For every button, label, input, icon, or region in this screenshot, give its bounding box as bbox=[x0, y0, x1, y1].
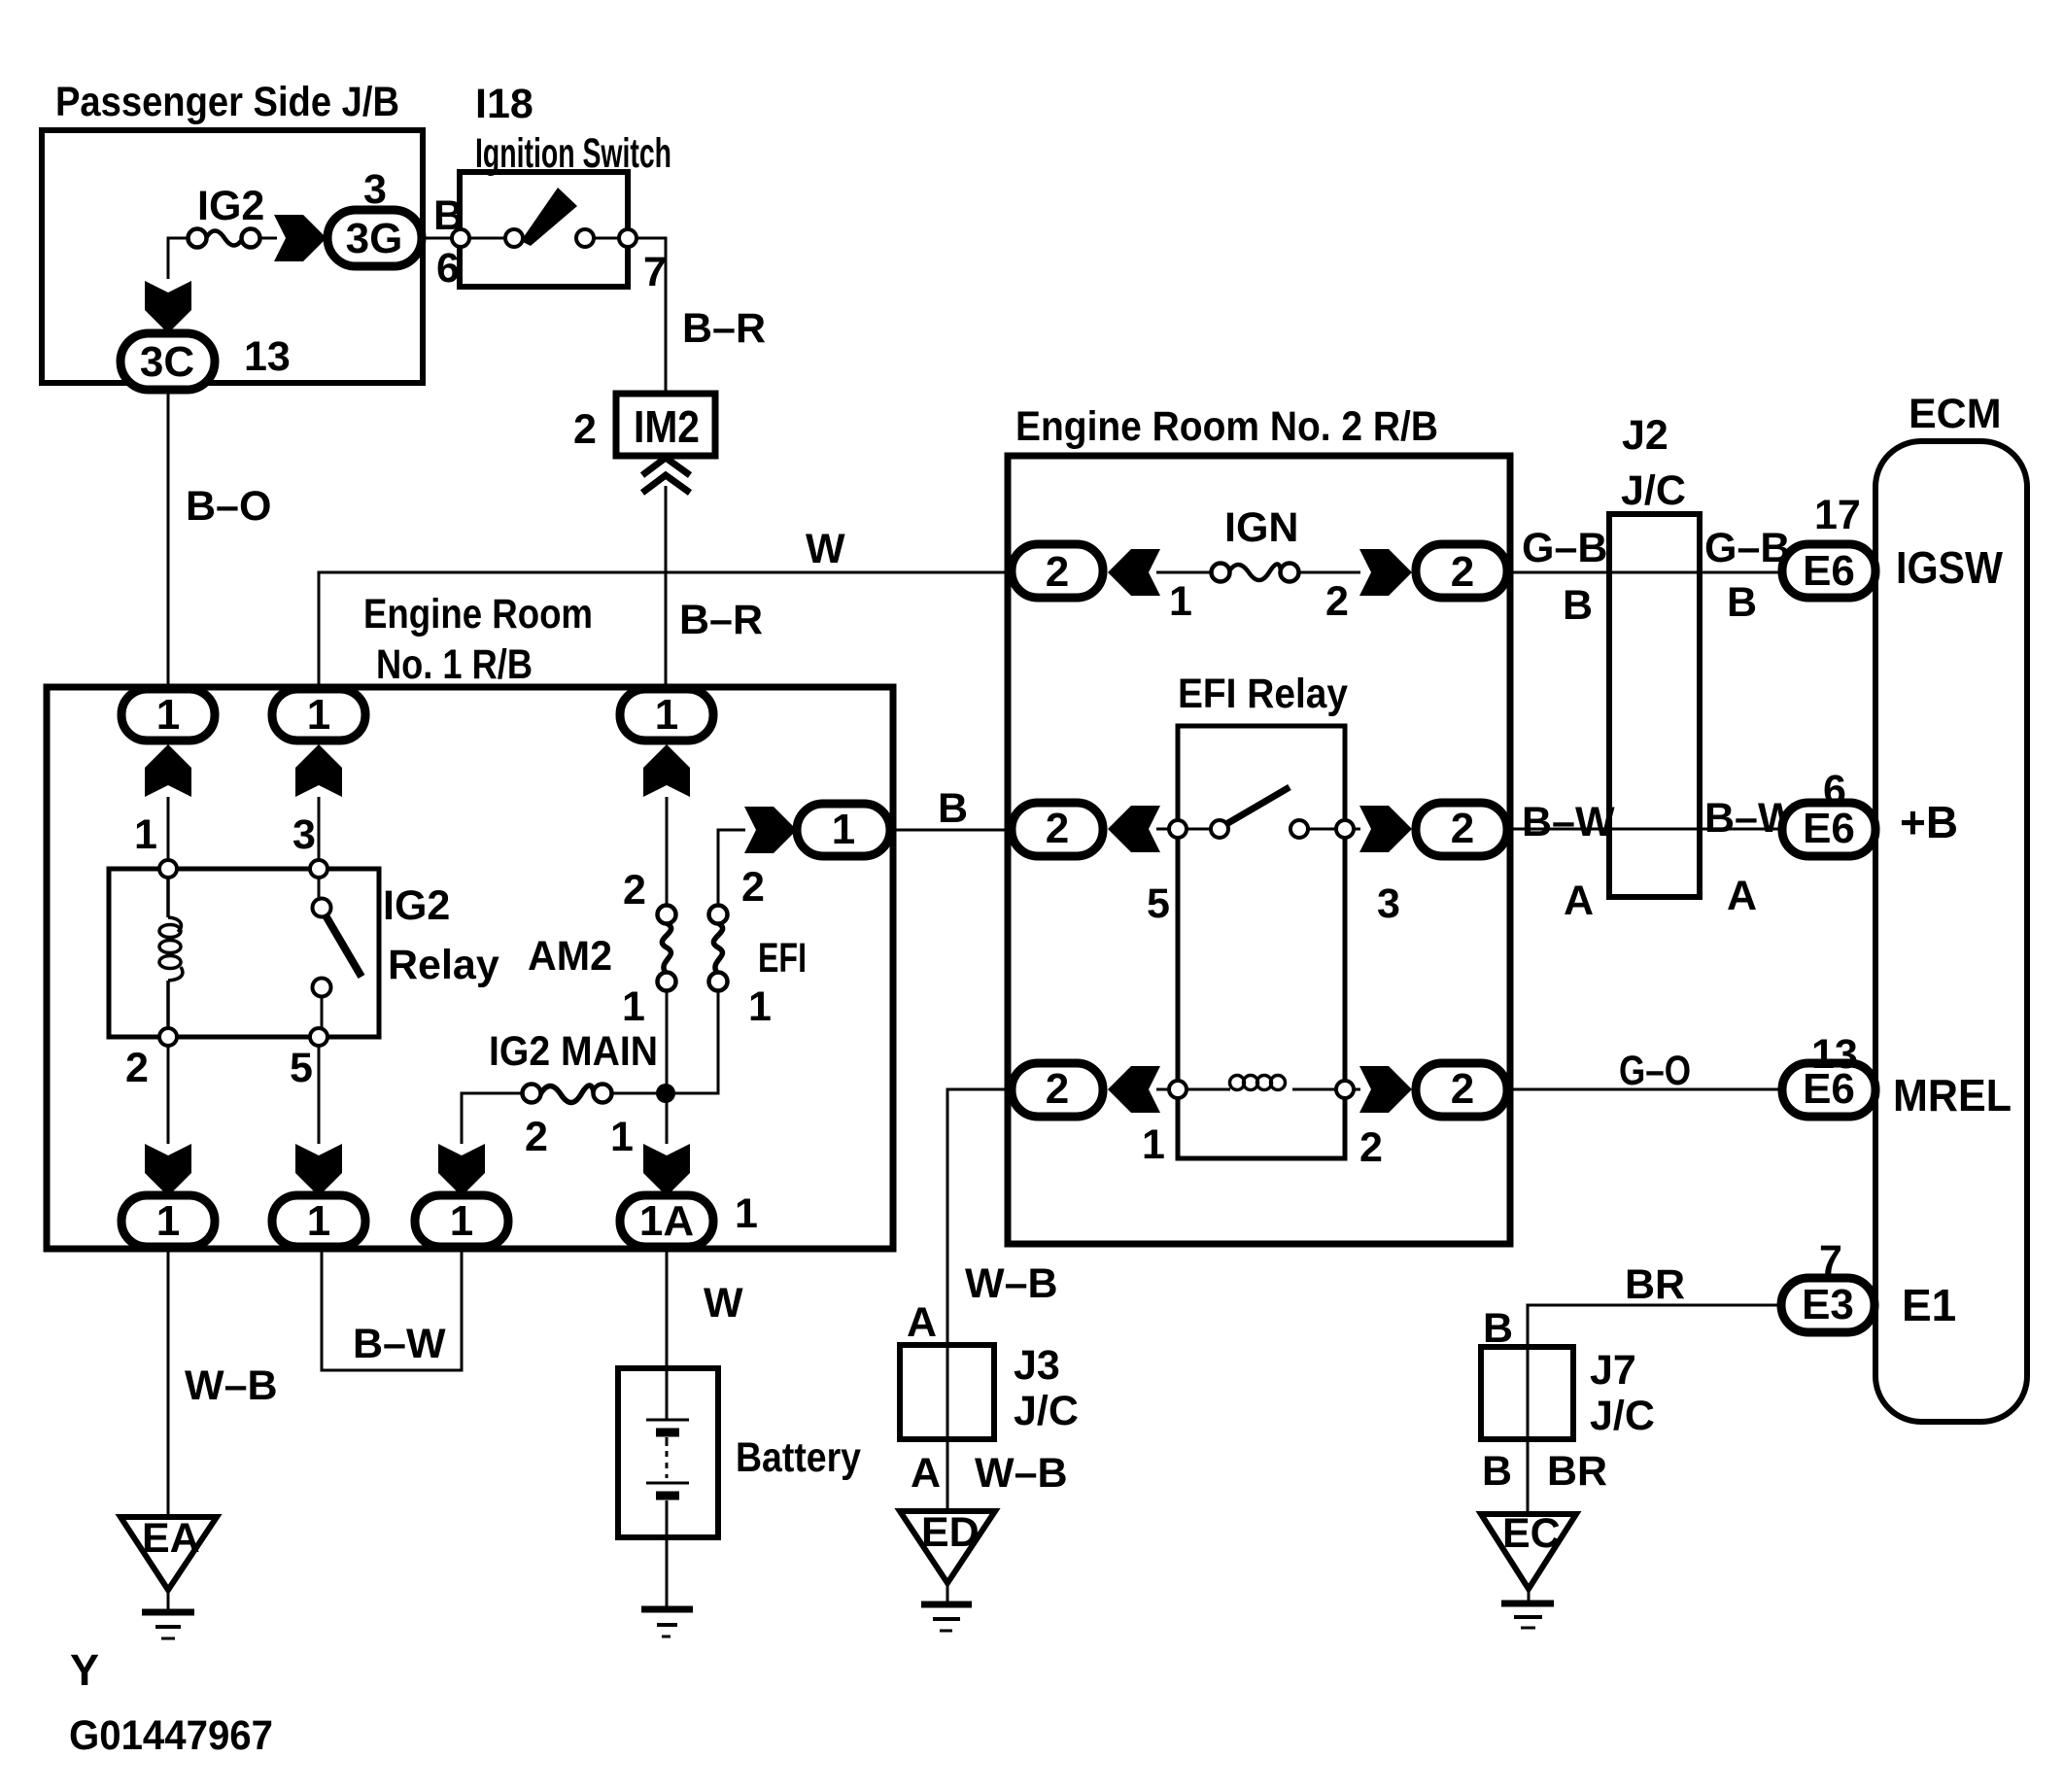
ground EC bbox=[1481, 1510, 1576, 1628]
svg-text:G01447967: G01447967 bbox=[69, 1712, 273, 1759]
svg-text:E1: E1 bbox=[1902, 1280, 1956, 1330]
connector E3 pin 7 E1 bbox=[1781, 1237, 1956, 1332]
connector E6 pin 17 IGSW bbox=[1782, 492, 2004, 598]
IG2 relay coil bbox=[159, 878, 183, 1028]
svg-text:1: 1 bbox=[450, 1197, 473, 1245]
svg-text:G–B: G–B bbox=[1522, 525, 1607, 571]
connector arrow up col 1 bbox=[145, 744, 191, 797]
connector 3G pin 3 bbox=[327, 166, 422, 266]
svg-text:1: 1 bbox=[748, 983, 772, 1030]
junction node bbox=[656, 1084, 675, 1103]
connector arrow down col 1A bbox=[643, 1144, 690, 1196]
EFI relay coil pins 1 2 bbox=[1142, 1076, 1383, 1172]
svg-text:B–R: B–R bbox=[682, 305, 766, 352]
svg-text:B: B bbox=[938, 785, 968, 832]
svg-text:IM2: IM2 bbox=[634, 401, 700, 452]
svg-text:3G: 3G bbox=[346, 215, 403, 262]
svg-text:1: 1 bbox=[156, 1197, 180, 1245]
svg-text:2: 2 bbox=[1046, 805, 1069, 852]
wire switch pin7 to IM2, label B-R bbox=[636, 238, 766, 394]
ground EA bbox=[120, 1515, 217, 1638]
svg-text:BR: BR bbox=[1625, 1261, 1685, 1308]
svg-text:J3: J3 bbox=[1014, 1342, 1060, 1389]
IG2 relay pin circles bbox=[159, 860, 177, 878]
wire IG2 MAIN to corner col3 bbox=[462, 1093, 523, 1144]
svg-text:6: 6 bbox=[1823, 767, 1846, 813]
connector oval 2 (+B row, left) bbox=[1012, 803, 1103, 856]
wire arrow to IGN fuse bbox=[1156, 571, 1212, 574]
connector oval 1 (bottom, col 1) bbox=[121, 1195, 215, 1247]
connector arrow up col AM2 bbox=[643, 744, 690, 797]
svg-text:J/C: J/C bbox=[1590, 1393, 1655, 1439]
connector oval 2 (IGN row, right) bbox=[1416, 544, 1507, 598]
connector oval 2 (+B row, right) bbox=[1416, 803, 1507, 856]
svg-text:1: 1 bbox=[1169, 578, 1192, 625]
svg-text:1: 1 bbox=[1142, 1121, 1165, 1168]
svg-text:1: 1 bbox=[156, 691, 180, 739]
wire B from oval 1 to Engine Room No.2 R/B bbox=[890, 785, 1012, 832]
svg-text:J2: J2 bbox=[1622, 412, 1668, 459]
svg-text:EFI Relay: EFI Relay bbox=[1178, 671, 1348, 717]
connector arrow into 3C bbox=[145, 281, 191, 333]
svg-text:6: 6 bbox=[436, 245, 460, 292]
fuse IG2 bbox=[189, 183, 265, 248]
svg-text:2: 2 bbox=[1451, 1065, 1474, 1113]
connector oval 2 (MREL row, right) bbox=[1416, 1063, 1507, 1117]
svg-text:1: 1 bbox=[832, 806, 855, 853]
junction connector J3 J/C bbox=[900, 1342, 1079, 1439]
svg-text:ED: ED bbox=[921, 1509, 980, 1556]
Engine Room No. 1 R/B box bbox=[47, 591, 893, 1249]
svg-text:B–W: B–W bbox=[1522, 799, 1615, 845]
svg-text:EA: EA bbox=[142, 1515, 200, 1562]
connector oval 1 (top, col 2) bbox=[272, 689, 365, 741]
connector 3C pin 13 bbox=[120, 333, 291, 390]
connector arrow left (IGN row) bbox=[1108, 549, 1160, 596]
battery ground bbox=[641, 1537, 693, 1637]
junction connector J2 J/C bbox=[1609, 412, 1700, 897]
connector arrow down col 1 bbox=[145, 1144, 191, 1196]
svg-text:IG2 MAIN: IG2 MAIN bbox=[489, 1028, 658, 1075]
connector oval 1 (B row) bbox=[797, 804, 890, 856]
Engine Room No. 2 R/B box bbox=[1008, 403, 1510, 1244]
fuse IG2 MAIN bbox=[489, 1028, 658, 1160]
battery bbox=[618, 1368, 861, 1537]
svg-text:2: 2 bbox=[1325, 578, 1349, 625]
svg-text:Engine Room: Engine Room bbox=[363, 591, 593, 638]
connector oval 1A pin 1 bbox=[620, 1190, 758, 1247]
svg-text:2: 2 bbox=[525, 1114, 548, 1160]
connector arrow left (+B row) bbox=[1108, 806, 1160, 852]
connector chevrons under IM2 bbox=[642, 458, 690, 493]
svg-text:G–O: G–O bbox=[1619, 1048, 1691, 1094]
svg-text:J7: J7 bbox=[1590, 1347, 1636, 1394]
svg-text:Battery: Battery bbox=[736, 1434, 861, 1481]
svg-text:17: 17 bbox=[1814, 492, 1861, 538]
svg-text:3: 3 bbox=[363, 166, 387, 213]
connector E6 pin 13 MREL bbox=[1782, 1031, 2012, 1120]
svg-text:Passenger Side J/B: Passenger Side J/B bbox=[55, 79, 399, 125]
svg-text:B: B bbox=[1482, 1448, 1512, 1495]
svg-text:1: 1 bbox=[655, 691, 678, 739]
svg-text:E3: E3 bbox=[1802, 1281, 1854, 1328]
connector arrow into oval 1 (B row) bbox=[744, 807, 797, 853]
svg-text:J/C: J/C bbox=[1621, 467, 1686, 514]
wire col2 arrow to relay pin 3 bbox=[318, 797, 321, 869]
wire EFI fuse up to corner and arrow bbox=[718, 830, 745, 906]
IG2 relay switch contacts bbox=[313, 899, 331, 917]
svg-text:A: A bbox=[1564, 878, 1594, 924]
svg-text:W–B: W–B bbox=[185, 1362, 278, 1409]
wire J7 to ground EC bbox=[1482, 1439, 1607, 1514]
EFI relay switch pins 5 3 bbox=[1147, 820, 1400, 927]
wire B-W row to J2 and E6 bbox=[1507, 795, 1798, 924]
svg-text:EC: EC bbox=[1502, 1510, 1561, 1557]
wire col1 arrow to relay pin 1 bbox=[167, 797, 170, 869]
wire EFI fuse down to junction bbox=[667, 990, 718, 1093]
wire G-B row to J2 and E6 bbox=[1507, 525, 1790, 629]
fuse EFI bbox=[709, 864, 808, 1030]
svg-text:J/C: J/C bbox=[1014, 1388, 1079, 1434]
svg-text:7: 7 bbox=[1819, 1237, 1842, 1284]
svg-text:W: W bbox=[806, 526, 845, 572]
svg-text:G–B: G–B bbox=[1704, 525, 1790, 571]
svg-text:B: B bbox=[1563, 582, 1593, 629]
connector oval 2 (IGN row, left) bbox=[1012, 544, 1103, 598]
IG2 relay switch blade bbox=[326, 915, 361, 977]
svg-text:1: 1 bbox=[307, 1197, 330, 1245]
wire IG2 fuse to corner bbox=[168, 238, 189, 279]
svg-text:E6: E6 bbox=[1803, 547, 1855, 595]
wire 3G to ignition switch bbox=[422, 237, 461, 240]
wire W-B to ground EA bbox=[168, 1248, 278, 1517]
connector arrow right (+B row) bbox=[1359, 806, 1412, 852]
ignition switch I18 bbox=[433, 81, 671, 295]
svg-text:2: 2 bbox=[1359, 1124, 1383, 1171]
EFI Relay box bbox=[1178, 671, 1348, 1158]
svg-text:2: 2 bbox=[125, 1045, 149, 1091]
svg-text:5: 5 bbox=[1147, 880, 1170, 927]
junction connector J7 J/C bbox=[1481, 1347, 1655, 1439]
wire W from corner above No.1 R/B to Engine Room No.2 R/B bbox=[319, 526, 1012, 688]
svg-text:A: A bbox=[907, 1299, 937, 1346]
svg-text:Engine Room No. 2 R/B: Engine Room No. 2 R/B bbox=[1015, 403, 1438, 450]
IG2 relay box bbox=[109, 811, 499, 1091]
connector arrow up col 2 bbox=[295, 744, 342, 797]
svg-text:1: 1 bbox=[134, 811, 157, 858]
svg-text:2: 2 bbox=[1046, 1065, 1069, 1113]
svg-text:BR: BR bbox=[1547, 1448, 1607, 1495]
svg-text:2: 2 bbox=[1451, 548, 1474, 596]
svg-text:No. 1 R/B: No. 1 R/B bbox=[376, 641, 533, 688]
svg-text:Y: Y bbox=[70, 1645, 99, 1695]
svg-text:Relay: Relay bbox=[388, 942, 499, 988]
wire W-B from MREL row left oval to J3 bbox=[907, 1089, 1058, 1346]
wire AM2 fuse down through junction bbox=[666, 990, 669, 1144]
svg-text:I18: I18 bbox=[475, 81, 533, 127]
connector oval 2 (MREL row, left) bbox=[1012, 1063, 1103, 1117]
svg-text:ECM: ECM bbox=[1909, 391, 2002, 437]
svg-text:A: A bbox=[1727, 873, 1757, 919]
connector oval 1 (top, col AM2) bbox=[620, 689, 713, 741]
wire BR from E3 to corner and J7 bbox=[1483, 1261, 1781, 1352]
svg-text:2: 2 bbox=[623, 867, 646, 913]
connector arrow right (IGN row) bbox=[1359, 549, 1412, 596]
svg-text:3C: 3C bbox=[140, 338, 194, 386]
svg-text:MREL: MREL bbox=[1893, 1070, 2012, 1120]
connector oval 1 (top, col 1) bbox=[121, 689, 215, 741]
svg-text:B–O: B–O bbox=[186, 483, 271, 530]
svg-text:A: A bbox=[911, 1450, 941, 1497]
ground ED bbox=[900, 1509, 995, 1631]
connector E6 pin 6 +B bbox=[1782, 767, 1958, 856]
EFI relay switch blade bbox=[1226, 787, 1290, 824]
wire arrow to relay switch bbox=[1156, 828, 1178, 831]
svg-text:B: B bbox=[433, 192, 464, 239]
fuse AM2 bbox=[528, 867, 676, 1030]
svg-text:B–R: B–R bbox=[679, 597, 763, 643]
connector arrow into 3G bbox=[274, 215, 327, 261]
svg-text:W–B: W–B bbox=[975, 1450, 1068, 1497]
svg-text:5: 5 bbox=[290, 1045, 313, 1091]
Passenger Side J/B box bbox=[42, 79, 423, 383]
svg-text:1: 1 bbox=[622, 983, 645, 1030]
svg-text:1: 1 bbox=[735, 1190, 758, 1237]
svg-text:1: 1 bbox=[307, 691, 330, 739]
wire relay pin 5 down bbox=[318, 1046, 321, 1144]
connector IM2 pin 2 bbox=[573, 394, 715, 456]
svg-text:13: 13 bbox=[1811, 1031, 1858, 1078]
connector oval 1 (bottom, col 3) bbox=[415, 1195, 508, 1247]
svg-text:B: B bbox=[1727, 579, 1757, 626]
svg-text:2: 2 bbox=[741, 864, 765, 911]
wire relay pin 2 down bbox=[167, 1046, 170, 1144]
svg-text:3: 3 bbox=[1377, 880, 1400, 927]
wire IG2 fuse to arrow bbox=[258, 237, 277, 240]
wire J3 to ground ED bbox=[911, 1439, 1068, 1511]
svg-text:W: W bbox=[704, 1280, 743, 1327]
connector arrow left (MREL row) bbox=[1108, 1066, 1160, 1113]
svg-text:7: 7 bbox=[643, 249, 667, 295]
connector arrow down col 3 bbox=[438, 1144, 485, 1196]
svg-text:EFI: EFI bbox=[758, 935, 807, 982]
svg-text:AM2: AM2 bbox=[528, 933, 612, 980]
wire G-O row to E6 bbox=[1507, 1048, 1782, 1094]
svg-text:IG2: IG2 bbox=[383, 882, 450, 929]
svg-text:3: 3 bbox=[292, 811, 316, 858]
svg-text:IGSW: IGSW bbox=[1896, 542, 2004, 593]
svg-text:W–B: W–B bbox=[965, 1260, 1058, 1307]
connector oval 1 (bottom, col 2) bbox=[272, 1195, 365, 1247]
fuse IGN pins 1 2 bbox=[1169, 504, 1349, 625]
svg-text:B–W: B–W bbox=[353, 1321, 446, 1367]
connector arrow down col 2 bbox=[295, 1144, 342, 1196]
connector arrow right (MREL row) bbox=[1359, 1066, 1412, 1113]
wire IGN fuse to right arrow bbox=[1298, 571, 1360, 574]
svg-text:13: 13 bbox=[244, 333, 291, 380]
wire W from 1A to battery bbox=[667, 1248, 743, 1368]
svg-text:+B: +B bbox=[1900, 797, 1958, 847]
svg-text:2: 2 bbox=[573, 406, 597, 453]
svg-text:2: 2 bbox=[1046, 548, 1069, 596]
svg-text:IG2: IG2 bbox=[197, 183, 264, 229]
svg-text:1A: 1A bbox=[639, 1197, 694, 1245]
ECM box bbox=[1875, 391, 2027, 1422]
wire B-O from 3C down to Engine Room No.1 R/B bbox=[168, 388, 271, 688]
svg-text:2: 2 bbox=[1451, 805, 1474, 852]
wire B-W loop between bottom ovals bbox=[322, 1248, 462, 1370]
svg-text:1: 1 bbox=[610, 1114, 634, 1160]
wire arrow to relay coil bbox=[1156, 1088, 1178, 1091]
wire IG2 MAIN to junction bbox=[611, 1092, 667, 1095]
wire colAM2 arrow to AM2 fuse bbox=[666, 797, 669, 906]
wire B-R from IM2 down to Engine Room No.1 R/B, label B-R bbox=[666, 486, 763, 688]
svg-text:IGN: IGN bbox=[1224, 504, 1298, 551]
